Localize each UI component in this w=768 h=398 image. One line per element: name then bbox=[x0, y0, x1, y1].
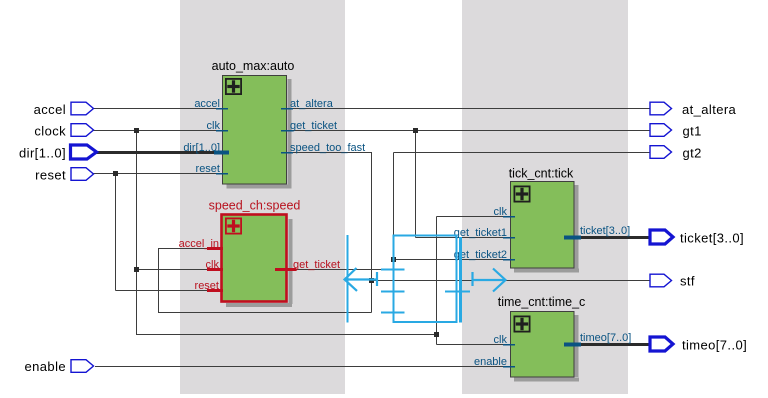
cyan horizontal y=235.5 bbox=[393, 235, 458, 237]
svg-text:timeo[7..0]: timeo[7..0] bbox=[682, 338, 747, 353]
svg-text:accel: accel bbox=[194, 98, 220, 110]
wire accel: input port to auto_max.accel bbox=[93, 108, 222, 110]
pin stub time_cnt.clk bbox=[503, 344, 515, 346]
svg-text:reset: reset bbox=[196, 163, 220, 175]
wire stf row from junction to stf output bbox=[372, 280, 651, 282]
svg-text:timeo[7..0]: timeo[7..0] bbox=[580, 332, 631, 344]
cyan vertical x=393.5 bbox=[393, 236, 395, 323]
wire clock tap to speed_ch.clk bbox=[136, 269, 210, 271]
pin stub auto_max.accel bbox=[216, 108, 228, 110]
pin stub speed_ch.get_ticket bbox=[275, 268, 297, 271]
bus wire timeo[7..0] time_cnt to output bbox=[574, 343, 650, 346]
input port clock bbox=[71, 124, 94, 137]
junction clock/auto_max.clk x=136 bbox=[134, 128, 139, 133]
svg-text:stf: stf bbox=[680, 274, 695, 289]
cyan vertical x=461.5 (thick) bbox=[459, 237, 462, 323]
bus wire dir[1..0] input to auto_max bbox=[96, 151, 222, 154]
cyan right arrow barbs bbox=[493, 269, 506, 292]
svg-text:dir[1..0]: dir[1..0] bbox=[183, 142, 220, 154]
pin stub speed_ch.reset bbox=[207, 289, 223, 292]
svg-text:at_altera: at_altera bbox=[290, 98, 334, 110]
pin stub tick_cnt.clk bbox=[503, 216, 515, 218]
speed_ch port labels (red) bbox=[179, 238, 340, 292]
svg-text:speed_ch:speed: speed_ch:speed bbox=[209, 199, 301, 213]
wire gt2 horizontal to output gt2 bbox=[394, 152, 651, 154]
wire at_altera: auto_max.at_altera to output port bbox=[287, 108, 650, 110]
svg-text:get_ticket: get_ticket bbox=[290, 120, 337, 132]
pin stub auto_max.clk bbox=[216, 130, 228, 132]
svg-text:clk: clk bbox=[207, 120, 221, 132]
pin labels (black) bbox=[19, 102, 747, 374]
pin stub time_cnt.enable bbox=[503, 366, 515, 368]
time_cnt timeo bus stub (navy thick) bbox=[564, 343, 581, 347]
block time_cnt:time_c shadow bbox=[514, 315, 579, 382]
wire get_ticket2 row to tick_cnt bbox=[394, 259, 511, 261]
expand icon speed_ch (red) bbox=[226, 218, 241, 233]
wire clock: input port to auto_max.clk bbox=[93, 130, 222, 132]
svg-text:gt2: gt2 bbox=[683, 146, 702, 161]
svg-text:reset: reset bbox=[35, 168, 66, 183]
svg-text:accel_in: accel_in bbox=[179, 238, 219, 250]
cyan tick y=291 bbox=[381, 291, 405, 293]
svg-text:enable: enable bbox=[25, 359, 66, 374]
wire enable: input port to time_cnt.enable bbox=[95, 366, 510, 368]
junction dots bbox=[113, 128, 439, 337]
wire reset to speed_ch.reset bbox=[116, 290, 211, 292]
svg-text:enable: enable bbox=[474, 356, 507, 368]
pin stub auto_max.reset bbox=[216, 173, 228, 175]
wire vertical speed_too_fast down at x=371.5 bbox=[371, 153, 373, 313]
tick_cnt ticket bus stub (navy thick) bbox=[564, 236, 581, 240]
block auto_max:auto shadow bbox=[227, 79, 292, 189]
wire clock to tick_cnt.clk bbox=[437, 216, 511, 218]
cyan right arrow shaft bbox=[473, 279, 506, 281]
cyan vertical x=347 bbox=[347, 235, 349, 323]
output port gt1 bbox=[650, 124, 672, 137]
output port stf bbox=[650, 274, 672, 287]
pin stub tick_cnt.get_ticket2 bbox=[503, 259, 515, 261]
junction get_ticket/gt1 x=415 bbox=[413, 128, 418, 133]
cyan left arrow barbs bbox=[345, 268, 358, 291]
background column band right bbox=[462, 0, 628, 394]
cyan left arrow end bar bbox=[376, 272, 378, 286]
block speed_ch:speed (selected, red) bbox=[222, 215, 287, 302]
output port ticket[3..0] (bus, thick) bbox=[650, 230, 673, 244]
cyan tick y=312.5 bbox=[381, 312, 405, 314]
tick_cnt port labels bbox=[454, 206, 630, 261]
cyan tick y=269 bbox=[381, 269, 405, 271]
wire speed_ch.get_ticket output horizontal bbox=[296, 269, 381, 271]
cyan left arrow shaft bbox=[345, 278, 377, 280]
cyan tick y=291 right pair bbox=[445, 291, 470, 293]
wire horizontal y=312 to accel_in dogleg bbox=[158, 312, 372, 314]
wire vertical from get_ticket junction x=415 bbox=[415, 131, 417, 238]
input port dir[1..0] (bus, thick) bbox=[71, 145, 97, 159]
auto_max port labels bbox=[183, 98, 365, 175]
svg-text:gt1: gt1 bbox=[683, 124, 702, 139]
wire clock to time_cnt.clk bbox=[437, 344, 511, 346]
block speed_ch:speed shadow bbox=[226, 219, 293, 307]
auto_max dir bus stub (navy thick) bbox=[214, 151, 229, 155]
svg-text:tick_cnt:tick: tick_cnt:tick bbox=[509, 167, 574, 181]
svg-text:auto_max:auto: auto_max:auto bbox=[212, 59, 295, 73]
block tick_cnt:tick bbox=[511, 182, 575, 269]
svg-text:time_cnt:time_c: time_cnt:time_c bbox=[498, 295, 586, 309]
wire accel_in horizontal into speed_ch bbox=[158, 248, 210, 250]
svg-text:get_ticket: get_ticket bbox=[293, 259, 340, 271]
pin stub speed_ch.accel_in bbox=[207, 247, 223, 250]
svg-text:dir[1..0]: dir[1..0] bbox=[19, 146, 66, 161]
svg-text:ticket[3..0]: ticket[3..0] bbox=[680, 231, 744, 246]
wire reset vertical at x=115.5 bbox=[115, 174, 117, 291]
svg-text:clock: clock bbox=[34, 124, 66, 139]
expand icon tick_cnt bbox=[514, 186, 529, 201]
pin stub tick_cnt.get_ticket1 bbox=[503, 237, 515, 239]
output port at_altera bbox=[650, 102, 672, 115]
svg-text:reset: reset bbox=[195, 280, 219, 292]
wire clock bottom horizontal y=334 bbox=[136, 334, 436, 336]
svg-text:clk: clk bbox=[494, 334, 508, 346]
bus wire ticket[3..0] tick_cnt to output bbox=[574, 236, 650, 239]
input port reset bbox=[71, 168, 94, 181]
svg-text:clk: clk bbox=[494, 206, 508, 218]
output port timeo[7..0] (bus, thick) bbox=[650, 337, 673, 351]
auto_max port stubs (navy) bbox=[216, 109, 293, 174]
speed_ch port stubs (red) bbox=[207, 249, 297, 291]
cyan horizontal y=322 bbox=[393, 321, 458, 323]
block tick_cnt:tick shadow bbox=[514, 185, 579, 273]
input port enable bbox=[71, 360, 94, 373]
wire clock vertical at x=136 bbox=[136, 131, 138, 335]
junction reset x=115.5 bbox=[113, 171, 118, 176]
input port accel bbox=[71, 102, 94, 115]
cyan right arrow start bar bbox=[471, 272, 473, 286]
wire vertical x=158 accel_in dogleg bbox=[158, 249, 160, 313]
wire get_ticket/gt1: auto_max.get_ticket to output gt1 bbox=[287, 130, 650, 132]
svg-text:ticket[3..0]: ticket[3..0] bbox=[580, 225, 630, 237]
pin stub auto_max.at_altera bbox=[281, 108, 293, 110]
cyan vertical x=456.5 bbox=[456, 236, 458, 323]
tick_cnt port stubs bbox=[503, 217, 515, 260]
pin stub auto_max.speed_too_fast bbox=[281, 152, 293, 154]
svg-text:clk: clk bbox=[206, 259, 220, 271]
junction clock tap speed_ch.clk bbox=[134, 267, 139, 272]
time_cnt port labels bbox=[474, 332, 631, 368]
wire reset: input port to auto_max.reset bbox=[93, 173, 222, 175]
wire horizontal y=237.5 to tick_cnt.get_ticket1 bbox=[416, 237, 511, 239]
wire clock vertical at x=436 bbox=[436, 217, 438, 345]
svg-text:accel: accel bbox=[34, 102, 66, 117]
junction speed_too_fast/stf row bbox=[369, 278, 374, 283]
wire vertical gt2 net at x=393.5 bbox=[393, 153, 395, 235]
selected net highlight (cyan) bbox=[345, 235, 506, 323]
wire speed_too_fast horizontal from auto_max bbox=[287, 152, 372, 154]
expand icon time_cnt bbox=[514, 316, 529, 331]
time_cnt port stubs bbox=[503, 345, 515, 367]
junction clock bottom x=436 bbox=[434, 332, 439, 337]
expand icon auto_max bbox=[226, 79, 241, 94]
block time_cnt:time_c bbox=[511, 312, 575, 378]
output port gt2 bbox=[650, 146, 672, 159]
block auto_max:auto bbox=[223, 76, 287, 185]
background column band left bbox=[180, 0, 345, 394]
pin stub speed_ch.clk bbox=[207, 268, 223, 271]
svg-text:at_altera: at_altera bbox=[682, 102, 737, 117]
svg-text:speed_too_fast: speed_too_fast bbox=[290, 142, 365, 154]
junction selected net / get_ticket2 row bbox=[391, 257, 396, 262]
pin stub auto_max.get_ticket bbox=[281, 130, 293, 132]
